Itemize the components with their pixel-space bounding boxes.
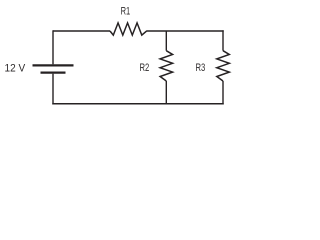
wire: right branch lower stub	[222, 81, 224, 105]
wire: right branch upper stub	[222, 30, 224, 50]
wire: top-left horizontal segment	[53, 30, 110, 32]
svg-text:R2: R2	[140, 62, 150, 74]
wire: bottom horizontal	[52, 103, 223, 105]
resistor R3	[217, 51, 230, 81]
svg-text:R3: R3	[196, 62, 206, 74]
wire: R2 branch upper stub	[165, 31, 167, 51]
svg-text:R1: R1	[121, 6, 131, 18]
wire: R2 branch lower stub	[165, 81, 167, 104]
wire: left branch lower stub	[52, 74, 54, 105]
wire: left branch upper stub	[52, 30, 54, 64]
battery V1 positive plate (long)	[33, 64, 74, 66]
svg-text:12 V: 12 V	[5, 63, 26, 75]
wire: top-right horizontal segment	[147, 30, 224, 32]
resistor R2	[160, 51, 173, 81]
resistor R1	[110, 23, 147, 35]
battery V1 negative plate (short)	[41, 71, 66, 73]
